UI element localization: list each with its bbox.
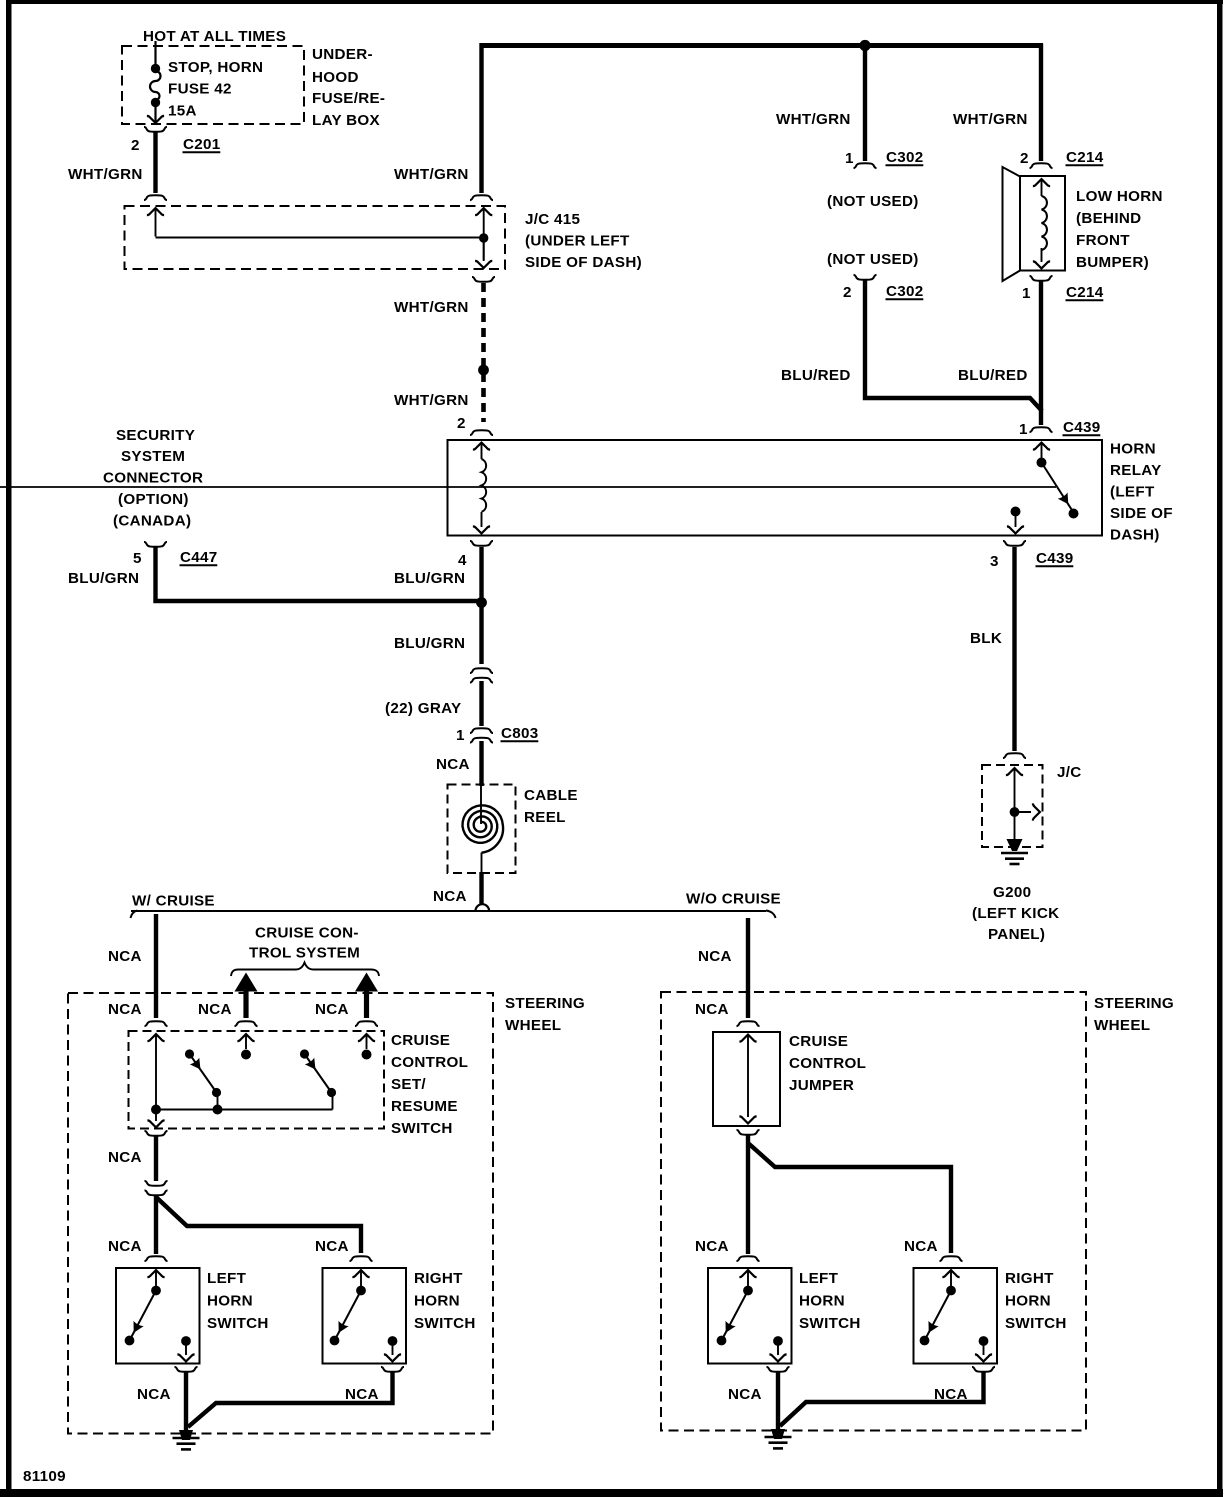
label WHT/GRN center top <box>394 166 469 183</box>
svg-text:3: 3 <box>990 553 999 570</box>
svg-text:CRUISE: CRUISE <box>391 1032 450 1049</box>
label STEERING left <box>505 995 585 1012</box>
wire WHT/GRN C201 to J/C415 <box>153 132 157 193</box>
svg-text:NCA: NCA <box>315 1001 349 1018</box>
node cruise sw left bottom <box>151 1105 161 1115</box>
node relay switch pivot <box>1037 458 1047 468</box>
cable reel exit wire <box>481 853 483 873</box>
svg-text:SWITCH: SWITCH <box>414 1315 476 1332</box>
svg-text:NCA: NCA <box>315 1238 349 1255</box>
label NCA g2 <box>345 1386 379 1403</box>
label SWITCH 2 <box>414 1315 476 1332</box>
svg-text:WHT/GRN: WHT/GRN <box>394 392 469 409</box>
branch line <box>131 910 766 912</box>
wire jumper inside J/C415 <box>156 237 484 239</box>
svg-text:5: 5 <box>133 550 142 567</box>
cable reel box (dashed) <box>448 785 516 874</box>
connector cup C214 pin1 <box>1030 276 1053 281</box>
connector cap relay pin1 <box>1030 427 1053 432</box>
svg-text:NCA: NCA <box>695 1238 729 1255</box>
node fuse top <box>151 64 160 73</box>
label UNDER- <box>312 46 373 63</box>
cruise system brace <box>231 963 379 977</box>
label SWITCH 3 <box>799 1315 861 1332</box>
wire rh2 to ground <box>780 1372 984 1426</box>
label FRONT <box>1076 232 1130 249</box>
label CONTROL sw <box>391 1054 468 1071</box>
branch line right hook <box>766 911 776 919</box>
cruise system arrow right <box>355 973 378 1019</box>
label HORN <box>1110 441 1156 458</box>
svg-text:CONNECTOR: CONNECTOR <box>103 470 203 487</box>
svg-text:J/C: J/C <box>1057 764 1082 781</box>
svg-text:(BEHIND: (BEHIND <box>1076 210 1141 227</box>
svg-text:DASH): DASH) <box>1110 527 1160 544</box>
wire lh1 to ground <box>184 1372 188 1432</box>
label (OPTION) <box>118 491 189 508</box>
label NCA below reel <box>433 888 467 905</box>
svg-text:WHEEL: WHEEL <box>505 1017 561 1034</box>
wire rh1 to ground <box>188 1372 393 1427</box>
connector cup below jumper <box>737 1130 760 1135</box>
ground right diagram bars <box>765 1437 792 1448</box>
label NCA lh left <box>108 1238 142 1255</box>
label BLK <box>970 630 1002 647</box>
arrow down to C201 <box>147 105 164 123</box>
wire dashed option segment <box>481 283 486 422</box>
svg-text:SECURITY: SECURITY <box>116 427 195 444</box>
label WHT/GRN mid lower <box>394 392 469 409</box>
label BLU/GRN security <box>68 570 139 587</box>
label RESUME <box>391 1098 458 1115</box>
wire top horizontal bus <box>480 43 1044 48</box>
svg-text:BUMPER): BUMPER) <box>1076 254 1149 271</box>
svg-text:(UNDER LEFT: (UNDER LEFT <box>525 233 630 250</box>
cable reel spiral <box>463 805 504 852</box>
svg-text:HOOD: HOOD <box>312 69 359 86</box>
svg-text:WHT/GRN: WHT/GRN <box>394 299 469 316</box>
connector cup below cruise sw <box>145 1131 168 1136</box>
svg-text:BLU/RED: BLU/RED <box>958 367 1028 384</box>
svg-text:1: 1 <box>456 727 465 744</box>
node splice blu/grn <box>476 597 487 608</box>
node fuse bottom <box>151 98 160 107</box>
svg-text:REEL: REEL <box>524 809 566 826</box>
connector cap at J/C415 left entry <box>144 195 167 200</box>
svg-text:1: 1 <box>1019 421 1028 438</box>
wire jumper branch right <box>748 1143 951 1253</box>
connector cap rh right <box>940 1256 963 1261</box>
svg-text:(22) GRAY: (22) GRAY <box>385 700 461 717</box>
label HOT AT ALL TIMES <box>143 28 286 45</box>
svg-text:NCA: NCA <box>108 948 142 965</box>
cruise system arrow left <box>235 973 258 1019</box>
svg-text:WHT/GRN: WHT/GRN <box>68 166 143 183</box>
label NCA sw3 <box>315 1001 349 1018</box>
label W/O CRUISE <box>686 891 781 908</box>
label BLU/GRN lower <box>394 635 465 652</box>
svg-text:PANEL): PANEL) <box>988 926 1045 943</box>
label DASH) <box>1110 527 1160 544</box>
svg-text:2: 2 <box>457 415 466 432</box>
label pin2 C302 <box>843 283 924 301</box>
arrow down cruise sw out <box>147 1110 164 1128</box>
relay switch blade <box>1042 463 1074 513</box>
wire NCA to cable reel <box>479 741 483 786</box>
svg-text:SWITCH: SWITCH <box>799 1315 861 1332</box>
svg-text:HORN: HORN <box>1005 1293 1051 1310</box>
svg-text:HOT AT ALL TIMES: HOT AT ALL TIMES <box>143 28 286 45</box>
label J/C 415 <box>525 211 581 228</box>
label SET/ <box>391 1076 426 1093</box>
connector cap C214 pin2 <box>1030 163 1053 168</box>
wire BLU/RED horn to relay <box>1039 281 1043 425</box>
cruise sw bottom rail <box>156 1109 333 1111</box>
svg-text:15A: 15A <box>168 103 197 120</box>
label NCA g4 <box>934 1386 968 1403</box>
label HOOD <box>312 69 359 86</box>
label SYSTEM <box>121 448 185 465</box>
svg-text:LAY BOX: LAY BOX <box>312 112 380 129</box>
svg-text:NCA: NCA <box>108 1149 142 1166</box>
label (NOT USED) 2 <box>827 251 919 268</box>
label NCA rh right <box>904 1238 938 1255</box>
cruise blade 1 <box>185 1049 221 1109</box>
label (NOT USED) 1 <box>827 193 919 210</box>
label pin 4 relay <box>458 552 467 569</box>
arrow up relay coil <box>473 443 490 459</box>
branch line left hook <box>131 911 138 919</box>
connector cap rh left <box>350 1256 373 1261</box>
svg-text:NCA: NCA <box>698 948 732 965</box>
branch junction bump <box>476 904 490 911</box>
wire J/C to ground <box>1014 812 1016 842</box>
svg-text:LEFT: LEFT <box>207 1270 247 1287</box>
arrow down relay contact <box>1007 514 1024 533</box>
ground left diagram bars <box>173 1438 200 1449</box>
label SWITCH sw <box>391 1120 453 1137</box>
steering wheel box left (dashed) <box>68 993 493 1434</box>
connector cup C302 pin2 <box>854 275 877 280</box>
connector cup relay pin3 <box>1003 541 1026 546</box>
connector cup under lh2 <box>767 1367 790 1372</box>
svg-text:SWITCH: SWITCH <box>391 1120 453 1137</box>
steering wheel box right (dashed) <box>661 992 1086 1431</box>
label RIGHT 2 <box>1005 1270 1054 1287</box>
border frame left bar <box>6 0 12 1497</box>
connector cup under rh1 <box>381 1367 404 1372</box>
label SECURITY <box>116 427 195 444</box>
svg-text:C201: C201 <box>183 136 221 153</box>
svg-text:SYSTEM: SYSTEM <box>121 448 185 465</box>
stray scan line <box>0 486 1056 488</box>
svg-text:CONTROL: CONTROL <box>391 1054 468 1071</box>
label STOP, HORN <box>168 59 263 76</box>
label LEFT 1 <box>207 1270 247 1287</box>
connector cap cruise in3 <box>355 1021 378 1026</box>
arrow down inside horn <box>1033 248 1050 268</box>
svg-text:SWITCH: SWITCH <box>1005 1315 1067 1332</box>
svg-text:SIDE OF DASH): SIDE OF DASH) <box>525 254 642 271</box>
svg-text:FUSE/RE-: FUSE/RE- <box>312 90 385 107</box>
svg-text:CONTROL: CONTROL <box>789 1055 866 1072</box>
label WHT/GRN c302 <box>776 111 851 128</box>
connector cup relay pin4 <box>470 541 493 546</box>
svg-text:LOW HORN: LOW HORN <box>1076 188 1163 205</box>
svg-text:RESUME: RESUME <box>391 1098 458 1115</box>
arrow up inside horn <box>1033 179 1050 196</box>
svg-text:JUMPER: JUMPER <box>789 1077 854 1094</box>
label BUMPER) <box>1076 254 1149 271</box>
svg-text:(LEFT KICK: (LEFT KICK <box>972 905 1059 922</box>
low horn speaker cone <box>1003 167 1021 281</box>
svg-text:CRUISE CON-: CRUISE CON- <box>255 925 359 942</box>
arrow up relay switch <box>1033 443 1050 458</box>
svg-text:1: 1 <box>845 150 854 167</box>
label PANEL) <box>988 926 1045 943</box>
svg-text:C803: C803 <box>501 725 539 742</box>
arrow down J/C415 right pin <box>475 238 492 268</box>
svg-text:(LEFT: (LEFT <box>1110 484 1155 501</box>
label NCA jumper <box>695 1001 729 1018</box>
wire cruise sw to splice <box>154 1136 158 1181</box>
svg-text:BLU/RED: BLU/RED <box>781 367 851 384</box>
label (LEFT <box>1110 484 1155 501</box>
svg-text:RIGHT: RIGHT <box>1005 1270 1054 1287</box>
border frame bottom bar <box>0 1489 1223 1497</box>
svg-text:RELAY: RELAY <box>1110 462 1162 479</box>
label NCA g1 <box>137 1386 171 1403</box>
label JUMPER j <box>789 1077 854 1094</box>
label RELAY <box>1110 462 1162 479</box>
wire BLK relay to J/C <box>1012 547 1016 751</box>
relay coil <box>482 459 487 512</box>
label CRUISE j <box>789 1033 848 1050</box>
svg-text:BLU/GRN: BLU/GRN <box>394 635 465 652</box>
connector C201 cup <box>144 127 167 132</box>
node J/C junction <box>1010 807 1020 817</box>
label NCA lh right <box>695 1238 729 1255</box>
wire BLU/RED from C302 pin2 <box>865 280 1042 411</box>
label NCA rh left <box>315 1238 349 1255</box>
svg-text:WHT/GRN: WHT/GRN <box>394 166 469 183</box>
connector cap lh left <box>145 1256 168 1261</box>
label CRUISE CON- <box>255 925 359 942</box>
connector C803 pair <box>470 728 493 742</box>
connector flat cap C302 pin1 <box>854 163 877 168</box>
svg-text:(OPTION): (OPTION) <box>118 491 189 508</box>
label BLU/RED right <box>958 367 1028 384</box>
svg-text:81109: 81109 <box>23 1468 66 1485</box>
svg-text:SIDE OF: SIDE OF <box>1110 505 1173 522</box>
label LEFT 2 <box>799 1270 839 1287</box>
node mid dashed splice <box>478 365 489 376</box>
horn coil <box>1042 196 1047 250</box>
connector inline pair <box>470 668 493 682</box>
left horn switch (left diagram) <box>116 1268 200 1364</box>
label SIDE OF <box>1110 505 1173 522</box>
svg-text:NCA: NCA <box>433 888 467 905</box>
jumper internal arrows <box>739 1035 756 1124</box>
label W/ CRUISE <box>132 893 215 910</box>
fuse F42 squiggle <box>150 71 161 100</box>
svg-text:C302: C302 <box>886 283 924 300</box>
label (UNDER LEFT <box>525 233 630 250</box>
label SWITCH 1 <box>207 1315 269 1332</box>
label WHEEL right <box>1094 1017 1150 1034</box>
svg-text:NCA: NCA <box>695 1001 729 1018</box>
right horn switch (left diagram) <box>323 1268 407 1364</box>
ground G200 blob <box>1007 839 1023 851</box>
svg-text:W/ CRUISE: W/ CRUISE <box>132 893 215 910</box>
border frame top bar <box>6 0 1223 4</box>
arrow up J/C415 right pin <box>475 208 492 260</box>
svg-text:STEERING: STEERING <box>1094 995 1174 1012</box>
svg-text:2: 2 <box>131 137 140 154</box>
svg-text:G200: G200 <box>993 884 1031 901</box>
svg-text:TROL SYSTEM: TROL SYSTEM <box>249 945 360 962</box>
connector cap jumper in <box>737 1021 760 1026</box>
node relay contact <box>1011 507 1021 517</box>
svg-text:2: 2 <box>843 284 852 301</box>
label RIGHT 1 <box>414 1270 463 1287</box>
label 15A <box>168 103 197 120</box>
svg-text:STEERING: STEERING <box>505 995 585 1012</box>
node relay blade end <box>1069 509 1079 519</box>
svg-text:1: 1 <box>1022 285 1031 302</box>
label pin5 C447 <box>133 549 218 567</box>
junction box J/C 415 (dashed) <box>125 206 506 269</box>
horn relay box <box>448 440 1103 536</box>
label pin1 C439 <box>1019 419 1101 438</box>
label HORN 3 <box>799 1293 845 1310</box>
label WHT/GRN horn <box>953 111 1028 128</box>
label J/C <box>1057 764 1082 781</box>
label 81109 <box>23 1468 66 1485</box>
connector cap at J/C415 right entry <box>470 195 493 200</box>
label NCA g3 <box>728 1386 762 1403</box>
cruise blade 2 <box>300 1049 336 1109</box>
label FUSE 42 <box>168 81 232 98</box>
label (BEHIND <box>1076 210 1141 227</box>
svg-text:CRUISE: CRUISE <box>789 1033 848 1050</box>
label pin 2 relay <box>457 415 466 432</box>
node J/C415 junction <box>479 233 488 242</box>
label BLU/GRN pin4 <box>394 570 465 587</box>
svg-text:UNDER-: UNDER- <box>312 46 373 63</box>
arrow down relay coil <box>473 512 490 533</box>
svg-text:NCA: NCA <box>137 1386 171 1403</box>
right horn switch (right diagram) <box>914 1268 998 1364</box>
connector cap above J/C <box>1003 753 1026 758</box>
svg-text:WHEEL: WHEEL <box>1094 1017 1150 1034</box>
label (22) GRAY <box>385 700 461 717</box>
svg-text:J/C 415: J/C 415 <box>525 211 581 228</box>
svg-text:BLU/GRN: BLU/GRN <box>394 570 465 587</box>
underhood fuse/relay box (dashed) <box>122 46 304 124</box>
label CONTROL j <box>789 1055 866 1072</box>
svg-text:4: 4 <box>458 552 467 569</box>
svg-text:BLU/GRN: BLU/GRN <box>68 570 139 587</box>
label SWITCH 4 <box>1005 1315 1067 1332</box>
svg-text:WHT/GRN: WHT/GRN <box>776 111 851 128</box>
label NCA above reel <box>436 756 470 773</box>
wire relay pin4 down <box>479 547 483 664</box>
label pin2 C214 <box>1020 149 1104 167</box>
connector cap lh right <box>737 1256 760 1261</box>
svg-text:SWITCH: SWITCH <box>207 1315 269 1332</box>
label LOW HORN <box>1076 188 1163 205</box>
label NCA wcruise <box>108 948 142 965</box>
label pin1 C214 <box>1022 284 1104 302</box>
label (CANADA) <box>113 513 191 530</box>
label REEL <box>524 809 566 826</box>
label BLU/RED left <box>781 367 851 384</box>
svg-text:NCA: NCA <box>904 1238 938 1255</box>
svg-text:NCA: NCA <box>108 1001 142 1018</box>
svg-text:HORN: HORN <box>1110 441 1156 458</box>
wire reel to branch line <box>479 872 483 904</box>
label NCA wocruise <box>698 948 732 965</box>
ground G200 bars <box>1001 853 1028 864</box>
svg-text:W/O CRUISE: W/O CRUISE <box>686 891 781 908</box>
connector cap cruise in1 <box>145 1021 168 1026</box>
arrow up cruise sw left <box>147 1034 164 1108</box>
label TROL SYSTEM <box>249 945 360 962</box>
ground right diagram blob <box>771 1429 785 1439</box>
junction box J/C near G200 (dashed) <box>982 765 1043 847</box>
label SIDE OF DASH) <box>525 254 642 271</box>
border frame right bar <box>1217 0 1223 1497</box>
label WHT/GRN mid upper <box>394 299 469 316</box>
label FUSE/RE- <box>312 90 385 107</box>
svg-text:C214: C214 <box>1066 284 1104 301</box>
node splice top bus <box>859 40 870 51</box>
label (LEFT KICK <box>972 905 1059 922</box>
wire security to center <box>156 547 482 601</box>
label pin1 C302 <box>845 149 924 167</box>
node cruise rail mid <box>213 1105 223 1115</box>
left horn switch (right diagram) <box>708 1268 792 1364</box>
svg-text:FRONT: FRONT <box>1076 232 1130 249</box>
svg-text:RIGHT: RIGHT <box>414 1270 463 1287</box>
wire splice down <box>154 1195 158 1254</box>
ground left diagram blob <box>179 1430 193 1440</box>
wire WHT/GRN to low horn <box>1039 44 1043 162</box>
label NCA sw1 <box>108 1001 142 1018</box>
splice connector pair <box>145 1181 168 1195</box>
low horn box <box>1020 176 1065 271</box>
connector cap relay pin2 <box>470 430 493 435</box>
svg-text:C439: C439 <box>1036 550 1074 567</box>
arrow up J/C415 left pin <box>147 208 164 236</box>
connector cup under rh2 <box>972 1367 995 1372</box>
svg-text:C447: C447 <box>180 549 218 566</box>
svg-text:CABLE: CABLE <box>524 787 578 804</box>
cruise contact right <box>358 1034 375 1059</box>
cruise set/resume switch box (dashed) <box>129 1031 385 1129</box>
label pin3 C439 <box>990 550 1074 570</box>
wire jumper down <box>746 1135 750 1254</box>
label STEERING right <box>1094 995 1174 1012</box>
svg-text:WHT/GRN: WHT/GRN <box>953 111 1028 128</box>
svg-text:NCA: NCA <box>436 756 470 773</box>
svg-text:NCA: NCA <box>108 1238 142 1255</box>
wire C302 pin1 drop <box>863 45 867 161</box>
label CONNECTOR <box>103 470 203 487</box>
wire gray segment <box>479 681 483 726</box>
svg-text:(NOT USED): (NOT USED) <box>827 193 919 210</box>
